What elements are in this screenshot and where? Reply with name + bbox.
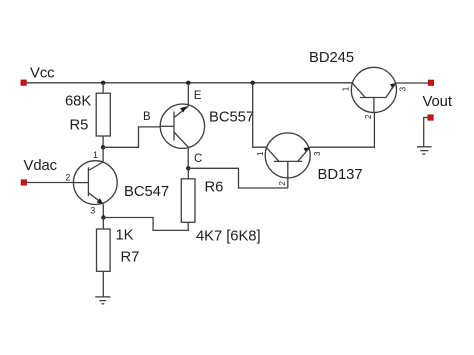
base bar of BD245 bbox=[360, 97, 386, 99]
transistor Q4 BD245 bbox=[351, 67, 396, 112]
collector of BD137 bbox=[266, 147, 279, 161]
ground (below Vout) bbox=[417, 147, 432, 154]
svg-text:1: 1 bbox=[256, 151, 265, 156]
wire BC547 collector to node A bbox=[102, 147, 104, 162]
svg-text:BC547: BC547 bbox=[124, 184, 169, 200]
svg-text:Vdac: Vdac bbox=[24, 158, 58, 174]
node A (R5 / Q1 collector / Q2 base) bbox=[101, 145, 105, 149]
node E junction on rail bbox=[186, 81, 190, 85]
svg-text:BD245: BD245 bbox=[309, 50, 354, 66]
svg-text:2: 2 bbox=[278, 181, 287, 186]
svg-text:3: 3 bbox=[399, 86, 408, 91]
base lead of BD245 bbox=[373, 98, 375, 113]
svg-text:3: 3 bbox=[90, 206, 95, 216]
node C (BC557 collector / R6 / BD137 base) bbox=[186, 166, 190, 170]
svg-text:Vcc: Vcc bbox=[30, 66, 55, 82]
wire BC557 collector to node C bbox=[187, 147, 189, 168]
base bar of BD137 bbox=[274, 160, 302, 162]
svg-text:BC557: BC557 bbox=[209, 110, 254, 126]
svg-text:2: 2 bbox=[65, 172, 70, 182]
resistor R5 bbox=[96, 93, 110, 136]
wire Vcc rail bbox=[26, 82, 352, 84]
wire Vcc rail to R5 bbox=[102, 83, 104, 93]
transistor Q3 BD137 bbox=[265, 133, 310, 188]
base lead of BD137 bbox=[287, 161, 289, 188]
base bar of BC557 bbox=[173, 112, 175, 141]
svg-text:1: 1 bbox=[93, 150, 98, 160]
collector of BC547 bbox=[88, 162, 103, 171]
svg-text:3: 3 bbox=[313, 151, 322, 156]
port Vout-return bbox=[428, 115, 433, 120]
base lead of BC557 bbox=[160, 125, 174, 127]
wire Vout-return to ground bbox=[424, 118, 428, 147]
emitter of BD137 with arrow bbox=[298, 147, 310, 161]
wire node C to BD137 base bbox=[188, 168, 287, 188]
svg-text:68K: 68K bbox=[65, 94, 91, 110]
wire BD137 emitter to BD245 base bbox=[310, 112, 375, 147]
node BD137-feed junction on rail bbox=[251, 81, 255, 85]
wire node B3 to R7 top bbox=[102, 218, 104, 230]
base bar of BC547 bbox=[87, 167, 89, 196]
wire BC547 emitter to node B3 bbox=[102, 204, 104, 217]
svg-text:R6: R6 bbox=[205, 179, 224, 195]
emitter of BC557 with arrow bbox=[174, 107, 188, 118]
wire rail to BD137 collector bbox=[253, 83, 266, 147]
resistor R6 bbox=[181, 179, 195, 223]
collector of BC557 bbox=[174, 132, 188, 147]
svg-text:E: E bbox=[194, 90, 202, 102]
ground (below R7) bbox=[95, 297, 110, 304]
port Vcc bbox=[21, 80, 26, 85]
transistor Q1 BC547 bbox=[73, 161, 117, 205]
collector of BD245 bbox=[352, 83, 365, 97]
emitter of BC547 with arrow bbox=[88, 193, 103, 204]
wire node B3 to R6 bottom bbox=[103, 218, 188, 231]
svg-text:Vout: Vout bbox=[423, 94, 452, 110]
node B3 (BC547 emitter / R7 / R6 return) bbox=[101, 215, 105, 219]
svg-text:BD137: BD137 bbox=[318, 167, 363, 183]
resistor R7 bbox=[97, 229, 111, 271]
wire R7 bottom to ground bbox=[102, 271, 104, 297]
transistor Q2 BC557 bbox=[160, 104, 205, 148]
wire Vdac to BC547 base bbox=[27, 182, 74, 184]
wire rail to BC557 emitter bbox=[187, 83, 189, 107]
svg-text:1: 1 bbox=[341, 86, 350, 91]
svg-text:2: 2 bbox=[364, 114, 373, 119]
base lead of BC547 bbox=[74, 182, 89, 184]
wire node A to BC557 base bbox=[103, 127, 160, 147]
svg-text:1K: 1K bbox=[116, 227, 134, 243]
wire R5 bottom to node A bbox=[102, 136, 104, 147]
svg-text:R7: R7 bbox=[121, 250, 140, 266]
svg-text:B: B bbox=[143, 111, 151, 123]
port Vdac bbox=[21, 180, 26, 185]
svg-text:4K7 [6K8]: 4K7 [6K8] bbox=[196, 229, 261, 245]
wire node C to R6 top bbox=[187, 168, 189, 179]
svg-text:R5: R5 bbox=[70, 118, 89, 134]
emitter of BD245 with arrow bbox=[386, 83, 396, 97]
node R5-top (junction on Vcc rail) bbox=[101, 81, 105, 85]
wire BD245 emitter to Vout bbox=[396, 82, 429, 84]
port Vout bbox=[428, 80, 433, 85]
svg-text:C: C bbox=[194, 153, 202, 165]
